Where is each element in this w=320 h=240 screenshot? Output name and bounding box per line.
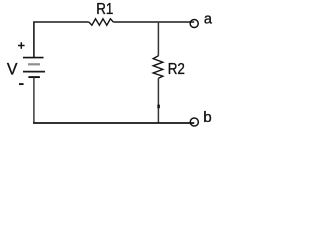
terminal a xyxy=(190,19,198,27)
wire: top node down to R2 xyxy=(157,22,159,56)
voltage source V (battery) xyxy=(23,58,45,78)
resistor R2 xyxy=(153,56,163,78)
label + (battery positive mark) xyxy=(18,42,25,49)
svg-text:b: b xyxy=(203,109,211,126)
svg-text:R2: R2 xyxy=(168,61,185,78)
resistor R1 xyxy=(89,19,114,25)
wire: R2 down to bottom rail xyxy=(157,78,159,123)
label - (battery negative mark) xyxy=(19,83,24,85)
wire: R1 to terminal a xyxy=(113,21,194,23)
wire: battery negative down to bottom rail xyxy=(33,77,35,123)
svg-text:a: a xyxy=(204,11,213,27)
terminal b xyxy=(190,118,198,126)
wire: bottom rail to terminal b xyxy=(33,122,194,124)
wire: battery positive terminal up and across top-left to R1 xyxy=(34,22,89,57)
svg-text:R1: R1 xyxy=(96,1,113,18)
svg-text:V: V xyxy=(7,61,18,79)
